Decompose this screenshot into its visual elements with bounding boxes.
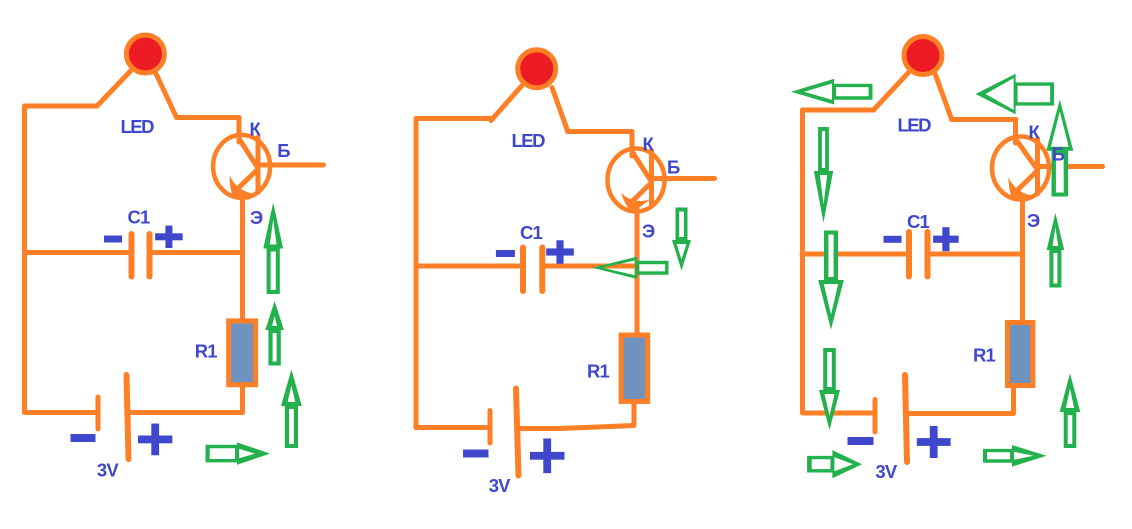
svg-text:3V: 3V	[875, 461, 897, 482]
wire LED1 cathode diagonal	[156, 73, 177, 118]
svg-text:3V: 3V	[97, 460, 119, 481]
C1 minus sign	[104, 236, 122, 243]
green arrow left top-right c3	[976, 74, 1055, 115]
wire top-left horizontal c2	[416, 116, 491, 121]
svg-text:R1: R1	[587, 361, 610, 382]
wire collector drop c1	[237, 118, 242, 143]
green arrow right bottom-left c3	[807, 450, 862, 478]
svg-text:К: К	[1029, 122, 1041, 143]
wire left rail c2	[414, 119, 419, 428]
battery minus sign c2	[463, 450, 489, 458]
green arrow left top-left c3	[791, 79, 873, 105]
wire top-left horizontal c3	[803, 108, 875, 113]
capacitor C1 (circuit 3) left plate	[906, 232, 912, 277]
wire capacitor C1 left	[25, 250, 129, 255]
battery 3V c3 positive plate	[905, 375, 907, 462]
transistor Q3 emitter line	[1019, 172, 1037, 189]
svg-text:К: К	[250, 119, 262, 140]
svg-text:3V: 3V	[489, 475, 511, 496]
green arrow up at emitter c3	[1047, 213, 1065, 288]
transistor Q1 emitter line	[239, 170, 257, 187]
wire bottom-left c3	[803, 411, 872, 416]
wire LED3 anode diagonal	[874, 73, 909, 110]
wire top-right horizontal c3	[952, 117, 1017, 122]
transistor Q2 emitter line	[633, 184, 651, 201]
capacitor C1 (circuit 2) left plate	[520, 248, 526, 292]
svg-text:LED: LED	[121, 116, 155, 137]
wire emitter Q3 down to R1	[1020, 197, 1025, 321]
green arrow up A1 (emitter current)	[263, 203, 283, 295]
capacitor C1 right plate	[147, 234, 153, 277]
C1 minus sign c2	[496, 250, 515, 257]
green arrow right bottom-middle c3	[983, 445, 1047, 467]
wire capacitor C2 right	[546, 264, 638, 269]
capacitor C1 (circuit 3) right plate	[925, 232, 931, 277]
transistor Q1 base bar	[256, 137, 261, 192]
transistor Q3 base bar	[1035, 139, 1040, 194]
transistor Q1 body	[213, 135, 270, 198]
svg-text:К: К	[643, 134, 655, 155]
svg-text:Б: Б	[1052, 144, 1065, 165]
battery 3V c1 positive plate	[127, 375, 129, 459]
transistor Q3 emitter arrow	[1009, 178, 1033, 201]
LED D3	[904, 37, 942, 75]
wire capacitor C2 left	[416, 264, 520, 269]
green arrow down rail middle c3	[818, 231, 844, 330]
green arrow down (into base node) c2	[672, 208, 691, 271]
svg-text:Б: Б	[667, 157, 680, 178]
wire LED2 cathode diagonal	[552, 88, 568, 131]
wire LED2 anode diagonal	[491, 86, 522, 121]
green arrow left (base current) c2	[593, 257, 669, 279]
wire R1 bottom jog c2	[519, 404, 635, 429]
transistor Q1 collector line	[240, 139, 258, 167]
transistor Q3 body	[992, 137, 1049, 200]
wire base Q1	[258, 163, 324, 168]
green arrow down rail upper c3	[814, 127, 833, 223]
svg-text:Э: Э	[250, 207, 263, 228]
battery plus sign c1	[138, 424, 172, 456]
transistor Q3 collector line	[1017, 141, 1037, 169]
transistor Q2 emitter arrow	[621, 193, 650, 213]
svg-text:Б: Б	[277, 140, 290, 161]
wire top-right horizontal c2	[568, 129, 633, 134]
svg-text:LED: LED	[512, 130, 546, 151]
battery 3V c3 negative plate	[873, 400, 878, 433]
green arrow right (battery current) c1	[206, 442, 271, 464]
green arrow up at base c3	[1046, 100, 1073, 197]
C1 plus sign	[155, 226, 183, 249]
wire top-right horizontal c1	[177, 115, 240, 120]
wire left rail c3	[800, 110, 805, 413]
green arrow up A2	[265, 301, 284, 366]
resistor R1 (circuit 3)	[1008, 323, 1033, 386]
wire R1 bottom jog c3	[906, 388, 1014, 414]
svg-text:C1: C1	[520, 222, 543, 243]
battery plus sign c2	[530, 438, 565, 473]
wire top-left horizontal c1	[25, 104, 98, 109]
svg-text:Э: Э	[1027, 210, 1040, 231]
C1 plus sign c2	[546, 240, 574, 264]
wire left rail c1	[22, 106, 27, 413]
green arrow up A3	[281, 370, 302, 449]
wire base Q2	[652, 176, 715, 181]
LED D1	[126, 35, 164, 73]
resistor R1 (circuit 2)	[621, 335, 648, 401]
wire capacitor C1 right	[153, 250, 243, 255]
wire bottom-left c1	[25, 410, 96, 415]
wire base Q3	[1038, 164, 1103, 169]
resistor R1 (circuit 1)	[229, 321, 256, 385]
battery minus sign c3	[848, 437, 874, 445]
LED D2	[518, 50, 556, 88]
battery minus sign c1	[71, 434, 96, 442]
green arrow down rail lower c3	[819, 348, 840, 430]
svg-text:Э: Э	[642, 221, 655, 242]
wire emitter Q1 down to R1	[240, 195, 245, 319]
C1 plus sign c3	[933, 227, 959, 251]
svg-text:R1: R1	[195, 341, 218, 362]
capacitor C1 left plate	[129, 234, 135, 277]
wire LED1 anode diagonal	[97, 71, 131, 107]
wire R1 bottom c1	[240, 387, 245, 413]
wire collector drop c3	[1013, 120, 1018, 144]
wire LED3 cathode diagonal	[935, 74, 952, 120]
capacitor C1 (circuit 2) right plate	[539, 248, 545, 292]
svg-text:C1: C1	[907, 211, 930, 232]
battery 3V c2 negative plate	[488, 411, 493, 444]
wire capacitor C3 left	[802, 252, 906, 257]
svg-text:LED: LED	[898, 115, 932, 136]
battery plus sign c3	[917, 426, 951, 458]
battery 3V c1 negative plate	[96, 397, 101, 429]
battery 3V c2 positive plate	[516, 389, 519, 476]
wire bottom-right c1	[130, 410, 243, 415]
C1 minus sign c3	[884, 236, 902, 243]
transistor Q1 emitter arrow	[230, 176, 254, 199]
svg-text:R1: R1	[973, 345, 996, 366]
transistor Q2 body	[608, 149, 665, 212]
wire bottom-left c2	[416, 425, 487, 430]
wire capacitor C3 right	[931, 252, 1023, 257]
transistor Q2 collector line	[633, 153, 651, 181]
wire collector drop c2	[630, 132, 635, 157]
transistor Q2 base bar	[649, 151, 654, 206]
wire emitter Q2 down to R1	[635, 209, 640, 333]
green arrow up bottom-right c3	[1060, 374, 1081, 449]
svg-text:C1: C1	[128, 207, 151, 228]
